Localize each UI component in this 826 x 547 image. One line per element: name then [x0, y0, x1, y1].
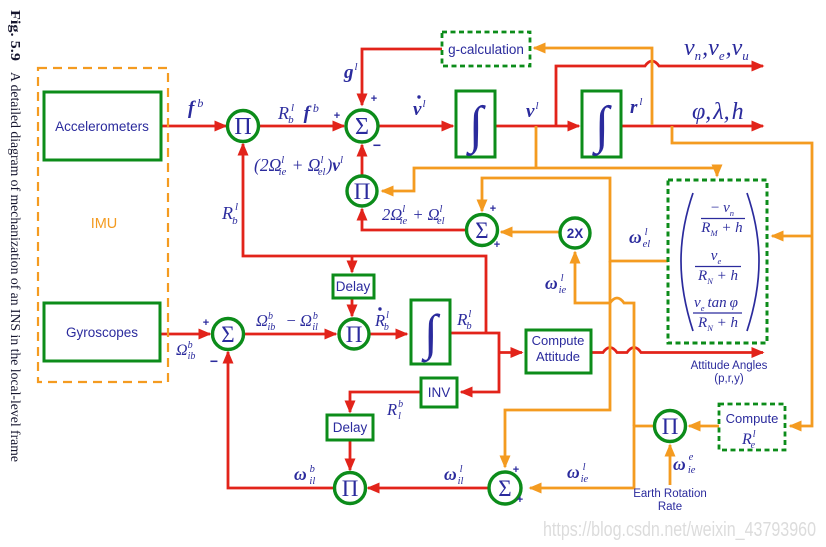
svg-text:Σ: Σ — [475, 218, 488, 243]
svg-text:Σ: Σ — [498, 476, 511, 501]
svg-text:φ, λ, h: φ, λ, h — [692, 99, 744, 125]
svg-text:RM + h: RM + h — [700, 220, 742, 238]
wire SIGMA3 to PI2 bottom — [362, 209, 466, 230]
wire r_l tap up to g-calculation — [534, 48, 652, 125]
svg-text:ωlie: ωlie — [567, 462, 588, 485]
multiplier PI4 — [335, 473, 366, 504]
matrix dashed green box — [668, 180, 767, 343]
svg-text:Attitude: Attitude — [536, 349, 580, 364]
wire Delay1 to PI3 top — [351, 298, 354, 316]
wire omega_el from matrix box left, vertical x=610 — [482, 178, 668, 261]
wire omega_el down branch into SIGMA4 top — [505, 261, 610, 467]
wire feedback branch down into Delay1 — [351, 256, 354, 272]
wire integrator2 to phi-lambda-h output — [621, 125, 763, 128]
wire Earth rotation rate into PI5 bottom — [669, 445, 672, 485]
wire bus branch into matrix box right side — [772, 235, 812, 238]
svg-text:Π: Π — [662, 414, 679, 439]
svg-text:(p,r,y): (p,r,y) — [714, 373, 744, 385]
Compute R_e_l dashed green box — [719, 404, 785, 450]
multiplier PI2 — [347, 176, 377, 206]
svg-text:Delay: Delay — [333, 420, 368, 435]
svg-text:2Ωlie + Ωlel: 2Ωlie + Ωlel — [382, 204, 445, 227]
summer SIGMA2 — [213, 319, 244, 350]
box integrator3 — [411, 300, 450, 364]
svg-text:(2Ωlie + Ωlel)vl: (2Ωlie + Ωlel)vl — [254, 155, 343, 178]
svg-text:+: + — [203, 317, 209, 329]
svg-text:Rlb: Rlb — [456, 309, 472, 332]
svg-text:https://blog.csdn.net/weixin_4: https://blog.csdn.net/weixin_43793960 — [543, 519, 816, 541]
g-calculation dashed green box — [442, 32, 530, 66]
svg-text:Compute: Compute — [532, 333, 585, 348]
svg-text:ωlie: ωlie — [545, 273, 566, 296]
svg-text:∫: ∫ — [592, 97, 612, 156]
svg-text:Compute: Compute — [726, 411, 779, 426]
wire v_l branch up to vn ve vu output (hop over orange x=652) — [556, 61, 763, 126]
svg-text:2X: 2X — [567, 226, 584, 241]
svg-text:Rbl: Rbl — [386, 399, 403, 422]
matrix left paren — [681, 193, 693, 331]
svg-text:g-calculation: g-calculation — [448, 42, 524, 57]
wire v_l tap down to horizontal bus — [535, 126, 538, 168]
svg-text:Σ: Σ — [355, 114, 369, 140]
svg-text:Rlb: Rlb — [374, 310, 389, 333]
svg-text:Rate: Rate — [658, 501, 682, 513]
wire r_l tap down to right-side bus — [672, 126, 812, 426]
wire PI3 to integrator3 — [369, 333, 407, 336]
box INV — [421, 378, 457, 407]
circle symbols — [221, 114, 678, 501]
box integrator1 — [456, 91, 495, 157]
wire SIGMA2 to PI3 — [244, 333, 336, 336]
wire SIGMA4 to PI4 — [368, 487, 489, 490]
wire Compute Attitude to Attitude Angles output (hops over orange x=610 x=634) — [591, 348, 763, 353]
box integrator2 — [582, 91, 621, 157]
svg-text:Earth Rotation: Earth Rotation — [633, 488, 707, 500]
svg-text:INV: INV — [428, 385, 451, 400]
svg-text:ωbil: ωbil — [294, 464, 315, 487]
box Compute Attitude — [526, 330, 591, 373]
wire branch to Compute Attitude — [499, 351, 522, 354]
svg-text:Π: Π — [234, 114, 251, 140]
svg-text:vn,ve,vu: vn,ve,vu — [684, 35, 749, 63]
svg-text:+: + — [490, 203, 496, 215]
box Delay2 — [327, 415, 373, 440]
wire bus y=168 left end into PI2 — [382, 168, 717, 191]
wire Accelerometers to PI1 — [161, 125, 226, 128]
svg-text:+: + — [334, 110, 340, 122]
svg-text:Attitude Angles: Attitude Angles — [691, 360, 768, 372]
svg-text:Gyroscopes: Gyroscopes — [66, 325, 138, 340]
wire Compute R_e_l to PI5 — [689, 425, 719, 428]
wire PI1 to SIGMA1 — [259, 125, 344, 128]
svg-text:ωlel: ωlel — [629, 227, 650, 250]
svg-text:Accelerometers: Accelerometers — [55, 119, 149, 134]
wire R_b_l feedback to PI1 bottom — [243, 144, 486, 333]
multiplier PI3 — [339, 319, 369, 349]
summer SIGMA4 — [489, 472, 521, 504]
wire bus right end down into matrix box top — [716, 168, 719, 176]
box Delay1 — [333, 275, 374, 298]
svg-text:Delay: Delay — [336, 279, 371, 294]
svg-text:−: − — [373, 137, 381, 153]
svg-text:Σ: Σ — [221, 322, 234, 347]
box Accelerometers — [44, 92, 161, 160]
wire INV to Delay2 — [350, 392, 421, 412]
svg-text:+: + — [494, 239, 500, 251]
svg-text:Ωbib: Ωbib — [176, 340, 195, 362]
wire integrator1 to integrator2 (v_l) — [495, 125, 579, 128]
svg-text:Π: Π — [354, 179, 371, 204]
svg-text:Π: Π — [346, 322, 363, 347]
wire PI4 to SIGMA2 bottom — [228, 352, 335, 488]
svg-text:RN + h: RN + h — [697, 315, 738, 333]
summer SIGMA3 — [467, 215, 498, 246]
IMU dashed orange box — [38, 68, 168, 382]
wire omega_ie up branch to 2X (hop over x=610) — [575, 252, 634, 426]
gain 2X — [560, 218, 590, 248]
wire SIGMA1 to integrator1 — [378, 125, 453, 128]
svg-text:A detailed diagram of mechaniz: A detailed diagram of mechanization of a… — [7, 72, 22, 462]
wire Gyroscopes to SIGMA2 — [160, 333, 210, 336]
svg-text:Rle: Rle — [741, 429, 756, 451]
box Gyroscopes — [44, 303, 160, 361]
multiplier PI5 — [655, 411, 686, 442]
svg-text:IMU: IMU — [91, 216, 118, 232]
matrix right paren — [747, 193, 759, 331]
svg-text:Ωbib − Ωbil: Ωbib − Ωbil — [256, 311, 318, 333]
svg-text:+: + — [513, 464, 519, 476]
svg-text:Π: Π — [342, 476, 359, 501]
svg-text:ve tan φ: ve tan φ — [694, 295, 738, 313]
svg-text:+: + — [517, 494, 523, 506]
svg-text:−: − — [210, 353, 218, 369]
svg-text:+: + — [371, 93, 377, 105]
svg-text:Fig. 5.9: Fig. 5.9 — [7, 10, 22, 61]
wire g-calculation to SIGMA1 top — [362, 49, 442, 105]
summer SIGMA1 — [346, 110, 378, 142]
wire omega_ie from PI5 output, vertical x=634 — [530, 426, 654, 488]
wire 2X to SIGMA3 — [501, 231, 559, 234]
wire integrator3 output R_b_l node — [450, 333, 499, 392]
svg-text:ωlil: ωlil — [444, 464, 463, 487]
integral signs — [421, 97, 612, 363]
multiplier PI1 — [228, 111, 259, 142]
svg-text:RN + h: RN + h — [697, 268, 738, 286]
wire Delay2 to PI4 top — [349, 440, 352, 470]
svg-text:∫: ∫ — [466, 97, 486, 156]
wire PI2 to SIGMA1 bottom — [361, 145, 364, 176]
